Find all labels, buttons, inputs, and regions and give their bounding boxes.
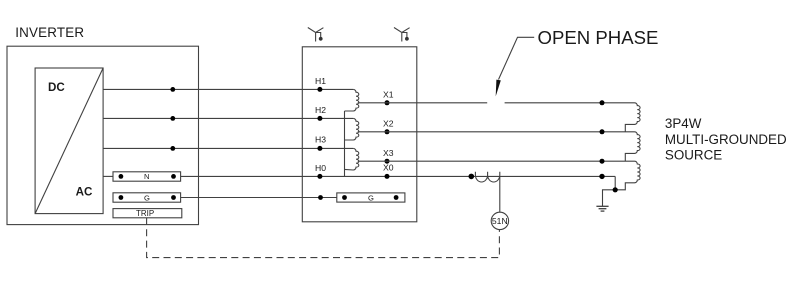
wire X1 to open phase gap — [358, 102, 488, 104]
inverter enclosure box — [7, 46, 199, 224]
junction dot phase C — [170, 146, 175, 151]
wire phase B inverter to transformer — [103, 117, 353, 119]
junction dot ground — [318, 195, 323, 200]
T1 winding common vertical to H0 — [344, 111, 346, 176]
source junction dot phase A — [600, 100, 605, 105]
wye-grounded symbol right — [394, 28, 410, 42]
T1 winding phase C — [345, 148, 359, 170]
wire CT to relay — [499, 176, 501, 212]
wire X3 to source — [358, 160, 635, 162]
ground symbol — [596, 206, 608, 211]
source junction dot phase B — [600, 129, 605, 134]
svg-text:X0: X0 — [383, 162, 394, 172]
DC/AC converter U1 — [35, 68, 103, 214]
svg-text:DC: DC — [48, 81, 65, 94]
relay 51N — [491, 212, 508, 229]
junction dot CT — [469, 174, 475, 180]
svg-text:3P4W: 3P4W — [665, 116, 702, 131]
wire neutral to transformer H0 — [181, 175, 616, 177]
wire phase A inverter to transformer — [103, 88, 353, 90]
svg-text:51N: 51N — [492, 216, 508, 226]
terminal H1 — [317, 87, 322, 92]
terminal X1 — [385, 100, 390, 105]
terminal H0 — [317, 174, 322, 179]
wire X2 to source — [358, 131, 635, 133]
junction dot phase A — [170, 87, 175, 92]
svg-text:X3: X3 — [383, 148, 394, 158]
wire X1 after gap to source — [505, 102, 635, 104]
svg-text:TRIP: TRIP — [136, 209, 154, 218]
wire ground to transformer — [181, 197, 337, 199]
open phase leader arrow — [496, 37, 535, 96]
T1 winding phase A — [345, 89, 359, 111]
svg-text:AC: AC — [76, 186, 93, 199]
svg-text:X1: X1 — [383, 89, 394, 99]
T1 winding phase B — [345, 118, 359, 140]
svg-text:H1: H1 — [315, 76, 326, 86]
source neutral corner — [614, 176, 616, 189]
source junction dot neutral — [599, 174, 604, 179]
svg-text:N: N — [144, 172, 149, 181]
terminal X2 — [385, 129, 390, 134]
ground bus bar G inverter — [113, 193, 181, 203]
ground bus bar G transformer — [337, 193, 405, 202]
source label — [665, 116, 787, 162]
terminal H3 — [317, 146, 322, 151]
source junction dot phase C — [600, 159, 605, 164]
svg-text:H2: H2 — [315, 105, 326, 115]
source neutral junction dot — [613, 187, 618, 192]
svg-text:X2: X2 — [383, 118, 394, 128]
svg-text:OPEN PHASE: OPEN PHASE — [538, 27, 659, 48]
trip circuit dashed wire — [147, 218, 500, 258]
svg-text:MULTI-GROUNDED: MULTI-GROUNDED — [665, 132, 787, 147]
source winding phase C — [603, 161, 641, 206]
source winding phase B — [625, 132, 640, 161]
terminal X0 — [385, 174, 390, 179]
wire phase C inverter to transformer — [103, 147, 353, 149]
CT on neutral — [475, 172, 499, 182]
terminal H2 — [317, 116, 322, 121]
neutral bus bar N — [113, 172, 181, 181]
svg-text:G: G — [368, 193, 374, 202]
svg-text:INVERTER: INVERTER — [15, 25, 84, 40]
wye-grounded symbol left — [308, 28, 324, 42]
TRIP output box — [113, 209, 182, 218]
terminal X3 — [385, 159, 390, 164]
svg-text:SOURCE: SOURCE — [665, 148, 722, 163]
svg-text:H3: H3 — [315, 135, 326, 145]
wire neutral stub inverter — [103, 175, 113, 177]
svg-text:G: G — [144, 193, 150, 202]
svg-text:H0: H0 — [315, 163, 326, 173]
transformer T1 box — [302, 47, 417, 222]
source winding phase A — [625, 103, 640, 132]
junction dot phase B — [170, 116, 175, 121]
